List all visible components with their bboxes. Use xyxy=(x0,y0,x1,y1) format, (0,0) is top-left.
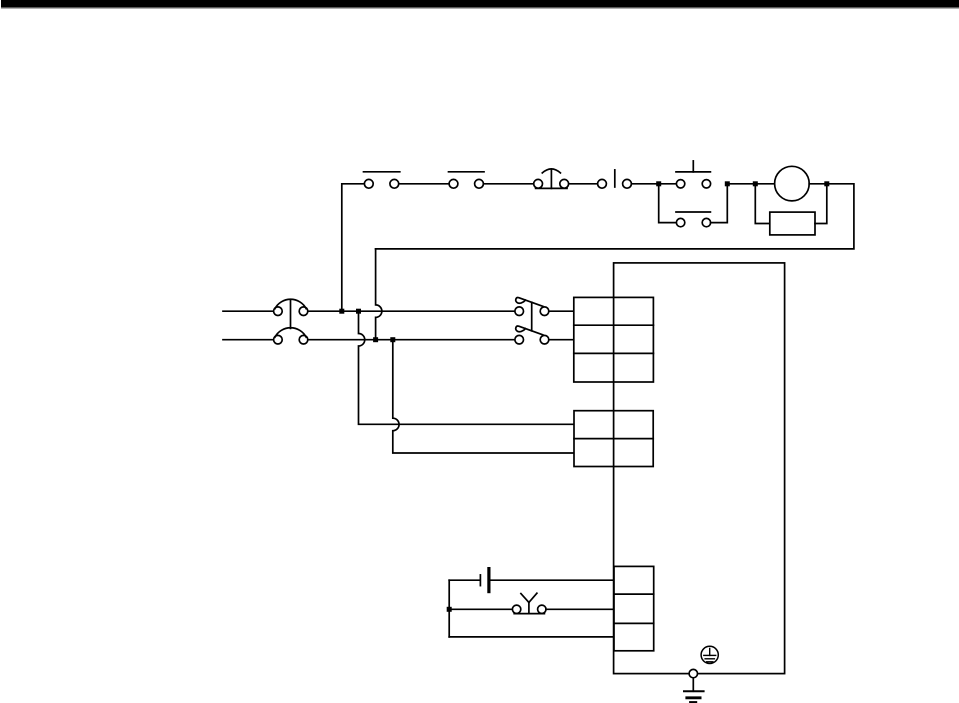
node L2 (junction to terminal feeder) xyxy=(356,309,361,314)
wire: return riser with crossover hop at top mains wire xyxy=(376,249,382,337)
wire: rail segment S4 to node A xyxy=(631,183,658,185)
controller unit U1 (large enclosure box) xyxy=(614,263,785,674)
wire: bottom mains wire N, plug to switch xyxy=(308,339,515,341)
node L1 (junction to control rail riser) xyxy=(339,309,344,314)
node F (earth terminal circle on enclosure) xyxy=(689,669,697,677)
wire: control rail left riser (node L to rail) xyxy=(342,184,364,311)
top black header bar xyxy=(1,0,959,8)
pushbutton S5 (NO start button, top of parallel pair) xyxy=(659,161,711,188)
resistor R1 (parallel with motor) xyxy=(755,184,827,235)
terminal block TB2 (2 rows) xyxy=(574,411,653,467)
contact S2 (NC contact, second) xyxy=(449,172,485,188)
wire: feeder from N2 with hop, down to terminal row xyxy=(393,340,574,453)
terminal block TB3 (3 rows) xyxy=(614,566,654,650)
wire: battery branch bottom return xyxy=(449,636,614,638)
node C (junction, motor left) xyxy=(753,181,758,186)
contact S1 (NC contact, left) xyxy=(364,172,400,188)
ground (earth symbol) xyxy=(684,691,704,702)
node E (junction on battery riser) xyxy=(447,607,452,612)
switch S6 (double-pole switch, upper pole) xyxy=(515,298,549,316)
key switch S7 (NO key-operated contact) xyxy=(449,593,614,613)
node A (junction, start-button branch) xyxy=(656,181,661,186)
wire: rail segment S1 to S2 xyxy=(399,183,449,185)
wire: feeder from L2 with hop over N, down to terminal row xyxy=(359,311,574,424)
wire: switch lower pole to terminal block TB1 xyxy=(549,339,574,341)
wire: node C to motor M1 xyxy=(755,183,774,185)
protective earth symbol PE (circled earth) xyxy=(701,646,718,663)
terminal block TB1 (3 rows) xyxy=(574,297,654,382)
switch S6 (double-pole switch, lower pole) xyxy=(515,326,549,344)
battery G1 xyxy=(449,569,614,592)
node B (junction at right of parallel pair) xyxy=(725,181,730,186)
wire: top mains wire L, plug to switch xyxy=(308,310,515,312)
pushbutton S3 (mushroom-head emergency stop) xyxy=(534,169,569,189)
node N1 (junction from return riser) xyxy=(373,337,378,342)
wire: earth terminal to ground xyxy=(692,678,694,691)
motor M1 (circle) xyxy=(775,166,810,201)
wire: rail to right drop and return run xyxy=(376,184,854,249)
plug X1 (mains plug-and-socket, two poles) xyxy=(223,299,308,344)
wire: motor M1 to node D xyxy=(809,183,827,185)
wire: rail segment S2 to S3 xyxy=(484,183,534,185)
contact S4 (NO contact with actuator) xyxy=(569,170,632,188)
wire: battery branch left riser xyxy=(448,580,450,637)
node N2 (junction to terminal feeder) xyxy=(390,337,395,342)
contact K1 (NC holding contact, bottom of parallel pair) xyxy=(659,184,728,227)
node D (junction, motor right) xyxy=(824,181,829,186)
wire: switch upper pole to terminal block TB1 xyxy=(549,310,574,312)
switch S6 mechanical link xyxy=(531,302,533,331)
wire: rail segment node B to node C xyxy=(727,183,755,185)
